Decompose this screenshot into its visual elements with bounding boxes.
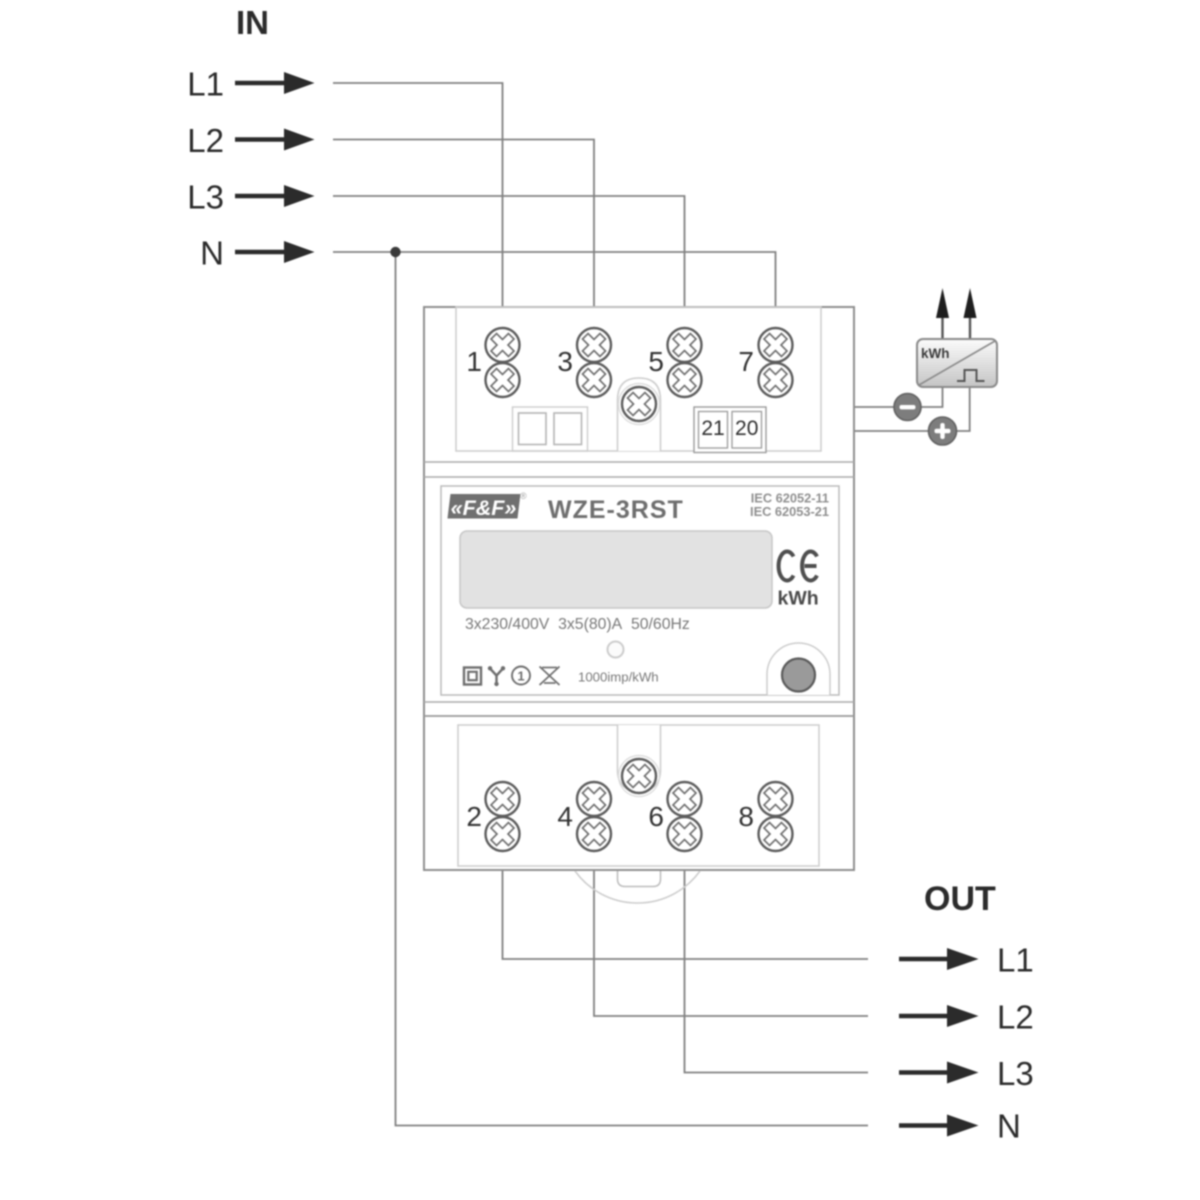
svg-text:IEC 62053-21: IEC 62053-21	[750, 504, 829, 519]
svg-text:2: 2	[466, 801, 482, 832]
svg-text:N: N	[200, 235, 224, 272]
svg-text:20: 20	[735, 417, 758, 440]
svg-text:IN: IN	[236, 4, 269, 41]
svg-text:1000imp/kWh: 1000imp/kWh	[578, 670, 659, 685]
svg-text:6: 6	[648, 801, 664, 832]
svg-text:L3: L3	[187, 179, 224, 216]
svg-text:L2: L2	[187, 122, 224, 159]
svg-text:®: ®	[520, 491, 527, 501]
svg-text:«F&F»: «F&F»	[451, 496, 517, 520]
svg-text:1: 1	[466, 346, 482, 377]
svg-text:kWh: kWh	[778, 588, 819, 610]
svg-text:3x230/400V 3x5(80)A 50/60Hz: 3x230/400V 3x5(80)A 50/60Hz	[465, 616, 690, 633]
svg-text:1: 1	[517, 669, 524, 684]
svg-text:L1: L1	[997, 942, 1034, 979]
svg-text:L1: L1	[187, 66, 224, 103]
svg-text:3: 3	[557, 346, 573, 377]
svg-text:4: 4	[557, 801, 573, 832]
svg-text:kWh: kWh	[921, 346, 950, 361]
svg-text:5: 5	[648, 346, 664, 377]
svg-text:8: 8	[738, 801, 754, 832]
svg-text:L3: L3	[997, 1055, 1034, 1092]
svg-text:7: 7	[738, 346, 754, 377]
svg-text:N: N	[997, 1108, 1021, 1145]
svg-text:21: 21	[701, 417, 724, 440]
svg-text:L2: L2	[997, 999, 1034, 1036]
svg-text:OUT: OUT	[924, 880, 996, 918]
svg-text:WZE-3RST: WZE-3RST	[548, 496, 684, 524]
